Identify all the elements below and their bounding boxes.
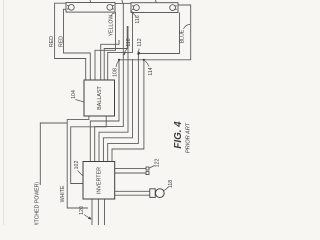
label 112 xyxy=(137,38,143,54)
svg-text:INVERTER: INVERTER xyxy=(96,167,102,194)
svg-text:116: 116 xyxy=(135,15,141,23)
svg-text:FIG. 4: FIG. 4 xyxy=(173,121,184,149)
inverter right wire to terminal 122a xyxy=(115,168,146,170)
label YELLOW xyxy=(108,13,114,36)
junction dot blue/138 xyxy=(137,53,139,55)
inverter bottom wire 3 xyxy=(104,199,106,225)
wire switched power xyxy=(40,123,67,185)
cascade wire 2 (from bridge) xyxy=(95,3,124,161)
wire yellow A2 xyxy=(101,40,119,80)
svg-text:104: 104 xyxy=(71,90,77,99)
inverter right wire to terminal 122b xyxy=(115,172,146,174)
ballast U104 xyxy=(84,80,115,116)
label 114 xyxy=(145,61,154,76)
junction dot blue/119 xyxy=(118,59,120,61)
wire red 1 xyxy=(55,3,86,80)
bridge lead tick xyxy=(121,0,124,3)
lamp LB body xyxy=(131,3,178,13)
svg-text:112: 112 xyxy=(137,38,143,46)
lamp LB lead tick xyxy=(155,0,158,3)
cascade wire 5 xyxy=(108,54,139,162)
junction dot blue/144 xyxy=(143,59,145,61)
svg-text:WHITE: WHITE xyxy=(60,185,66,202)
inverter bottom wire 1 xyxy=(91,199,93,225)
label 116 xyxy=(132,11,141,24)
wire red 2 xyxy=(64,9,91,80)
wire blue upper xyxy=(138,13,179,54)
wire blue lower xyxy=(119,5,191,60)
svg-text:122: 122 xyxy=(154,159,160,168)
svg-text:102: 102 xyxy=(74,161,80,170)
wire yellow A1 xyxy=(95,12,116,80)
svg-text:108: 108 xyxy=(112,68,118,77)
inverter U102 xyxy=(83,162,115,200)
label BLUE xyxy=(179,25,190,44)
svg-text:BLUE: BLUE xyxy=(179,29,185,43)
svg-text:114: 114 xyxy=(148,67,154,75)
svg-text:110: 110 xyxy=(126,38,132,46)
cascade wire 1 xyxy=(90,60,119,162)
inverter bottom wire 2 xyxy=(97,199,99,225)
svg-text:118: 118 xyxy=(168,180,174,188)
label 102 xyxy=(74,161,83,176)
svg-text:120: 120 xyxy=(79,206,85,215)
label 110 xyxy=(123,38,132,55)
label 108 xyxy=(112,61,118,77)
wire yellow B2 xyxy=(108,13,133,81)
plug 118 body xyxy=(150,189,155,198)
svg-text:RED: RED xyxy=(58,36,64,47)
lamp LA body xyxy=(66,3,115,13)
wire ballast to inverter left xyxy=(71,116,107,184)
label 118 xyxy=(164,180,175,191)
cascade wire 3 xyxy=(99,26,128,162)
label 104 xyxy=(71,90,84,102)
svg-text:BALLAST: BALLAST xyxy=(97,85,103,109)
svg-text:YELLOW: YELLOW xyxy=(108,15,114,37)
cascade wire 6 xyxy=(112,60,144,162)
cascade wire 4 xyxy=(103,59,132,162)
wire white from ballast bottom xyxy=(67,116,89,208)
wire yellow B1 xyxy=(104,26,127,80)
lamp LA lead tick xyxy=(89,0,92,3)
wire bridge between lamps xyxy=(115,2,131,4)
svg-text:PRIOR ART: PRIOR ART xyxy=(185,122,191,153)
label 122 xyxy=(150,159,161,168)
plug 118 wires xyxy=(115,190,150,192)
scan edge artifact xyxy=(3,0,5,225)
label 120 xyxy=(79,206,91,219)
terminal 122b xyxy=(146,172,149,175)
terminal 122a xyxy=(146,167,149,170)
svg-text:(SWITCHED POWER): (SWITCHED POWER) xyxy=(35,182,41,225)
svg-text:RED: RED xyxy=(49,36,55,47)
